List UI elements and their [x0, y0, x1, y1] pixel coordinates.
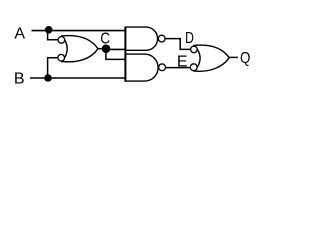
gate U4 input bubble (top): [191, 46, 198, 53]
wire D from U2 output to gate U4 top input: [165, 39, 190, 50]
svg-text:Q: Q: [240, 50, 250, 67]
node A junction dot: [45, 26, 53, 34]
svg-text:E: E: [177, 54, 188, 71]
wire from U1 output to node C: [98, 48, 104, 50]
NAND U2 body: [126, 27, 158, 50]
gate U1 input bubble (top): [58, 37, 65, 44]
wire E from U3 output to gate U4 bottom input: [166, 67, 191, 69]
node B junction dot: [44, 74, 52, 82]
NAND U3 body: [126, 54, 158, 81]
svg-text:C: C: [100, 30, 110, 47]
wire A (input A horizontal run): [32, 30, 126, 32]
wire node C to NAND U2 lower input: [106, 48, 126, 50]
gate U1 body (OR shape with inverted inputs): [62, 36, 98, 62]
wire B (input B horizontal run): [30, 77, 126, 79]
wire node C down then right to NAND U3 upper input: [106, 49, 126, 59]
NAND U2 output bubble: [158, 35, 165, 42]
gate U4 body (OR shape with inverted inputs): [194, 45, 229, 71]
wire B branch up to gate U1 bottom input: [48, 58, 59, 78]
gate U4 input bubble (bottom): [190, 64, 197, 71]
svg-text:D: D: [185, 30, 194, 47]
gate U1 input bubble (bottom): [58, 54, 65, 61]
shared left edge of NAND gates: [124, 26, 126, 81]
node C junction dot: [102, 44, 111, 53]
wire A branch down to gate U1 top input: [48, 31, 59, 40]
NAND U3 output bubble: [159, 64, 166, 71]
svg-text:B: B: [14, 71, 25, 88]
wire U4 output to Q: [229, 56, 238, 58]
svg-text:A: A: [14, 25, 25, 42]
